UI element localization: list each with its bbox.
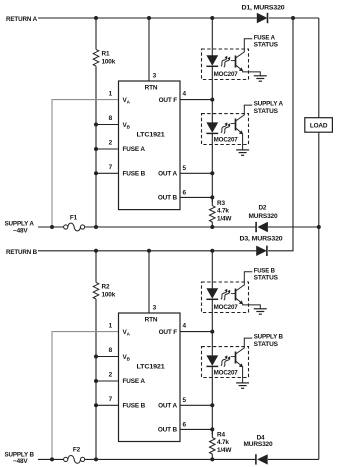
- junction R2 column at FUSE A: [94, 379, 98, 383]
- label U1 RTN: [145, 84, 158, 91]
- wire SUPPLY B rail mid: [85, 458, 256, 460]
- wire load line bottom: [268, 132, 319, 459]
- junction supply A after fuse: [94, 225, 98, 229]
- resistor R4 4.7k: [210, 429, 216, 459]
- label U4 LTC1921: [137, 364, 166, 371]
- ground U3: [236, 150, 249, 155]
- light arrows U6: [221, 355, 230, 366]
- svg-text:OUT B: OUT B: [158, 427, 178, 434]
- wire FUSE A pin stub: [96, 148, 119, 150]
- svg-text:FUSE B: FUSE B: [123, 403, 146, 410]
- svg-text:1/4W: 1/4W: [217, 216, 232, 223]
- svg-text:MURS320: MURS320: [244, 441, 274, 448]
- label R2: [102, 283, 116, 298]
- junction supply B after fuse: [94, 457, 98, 461]
- svg-text:5: 5: [183, 397, 187, 404]
- wire RTN stub B: [148, 251, 150, 313]
- junction R2 column at FUSE B: [94, 403, 98, 407]
- transistor U2 output: [231, 39, 260, 76]
- svg-text:FUSE A: FUSE A: [123, 146, 146, 153]
- svg-text:OUT F: OUT F: [159, 329, 178, 336]
- wire VA sense gray B: [52, 332, 119, 460]
- svg-text:FUSE B: FUSE B: [123, 171, 146, 178]
- svg-text:LTC1921: LTC1921: [137, 132, 166, 139]
- label U3 MOC207: [214, 136, 239, 143]
- wire opto column lower B: [211, 366, 213, 434]
- wire FUSE A pin stub B: [96, 380, 119, 382]
- ground U6: [236, 383, 249, 388]
- junction top rail at RTN: [147, 16, 151, 20]
- pin 6 label U4: [183, 421, 187, 428]
- svg-text:MOC207: MOC207: [214, 369, 239, 376]
- svg-text:STATUS: STATUS: [254, 275, 279, 282]
- wire opto column lower: [211, 133, 213, 202]
- junction OUT B node B: [210, 427, 214, 431]
- label U4 OUT B: [158, 427, 178, 434]
- svg-text:SUPPLY A: SUPPLY A: [254, 101, 284, 108]
- wire OUT A stub: [180, 172, 212, 174]
- load box: [305, 118, 333, 133]
- pin 5 label U1: [183, 165, 187, 172]
- transistor U3 output: [231, 105, 252, 150]
- svg-text:OUT A: OUT A: [158, 403, 177, 410]
- node RETURN A label: [6, 16, 38, 23]
- wire SUPPLY A rail mid: [85, 226, 256, 228]
- pin 3 label U4: [153, 304, 157, 311]
- label LOAD: [310, 123, 328, 130]
- junction supply B at VA sense: [50, 457, 54, 461]
- svg-text:5: 5: [183, 165, 187, 172]
- label U6 MOC207: [214, 369, 239, 376]
- junction R1 column at FUSE A: [94, 147, 98, 151]
- label U5 MOC207: [214, 304, 239, 311]
- transistor U5 output: [231, 272, 260, 309]
- wire opto column top B: [211, 251, 213, 289]
- wire SUPPLY B rail left: [38, 458, 64, 460]
- svg-text:R3: R3: [217, 200, 225, 207]
- resistor R1 100k: [93, 18, 99, 227]
- label U1 OUT F: [159, 97, 178, 104]
- label SUPPLY A: [5, 221, 35, 235]
- label FUSE B STATUS: [254, 267, 279, 281]
- LED U3: [206, 122, 218, 133]
- junction top rail at R1: [94, 16, 98, 20]
- junction top rail after D1: [291, 16, 295, 20]
- label SUPPLY B STATUS: [254, 334, 284, 348]
- svg-text:F1: F1: [70, 215, 78, 222]
- svg-text:2: 2: [109, 372, 113, 379]
- wire SUPPLY A rail left: [38, 226, 64, 228]
- diode D2 MURS320: [256, 222, 268, 232]
- fuse F2: [64, 456, 85, 464]
- svg-text:VA: VA: [123, 97, 131, 104]
- label R3: [217, 200, 232, 223]
- svg-text:MOC207: MOC207: [214, 71, 239, 78]
- svg-text:RTN: RTN: [145, 316, 158, 323]
- wire FUSE B pin stub: [96, 172, 119, 174]
- label U1 FUSE B: [123, 171, 146, 178]
- svg-text:VB: VB: [123, 354, 131, 361]
- pin 2 label U1: [109, 140, 113, 147]
- pin 5 label U4: [183, 397, 187, 404]
- wire opto column mid: [211, 66, 213, 122]
- junction supply B at R4: [210, 457, 214, 461]
- light arrows U2: [221, 56, 230, 67]
- pin 1 label U4: [109, 322, 113, 329]
- label U1 OUT A: [158, 171, 177, 178]
- svg-text:4.7k: 4.7k: [217, 439, 229, 446]
- LED U2: [206, 55, 218, 66]
- label U4 FUSE A: [123, 378, 146, 385]
- svg-text:4.7k: 4.7k: [217, 208, 229, 215]
- svg-text:−48V: −48V: [13, 227, 28, 234]
- svg-text:D3, MURS320: D3, MURS320: [240, 236, 284, 243]
- svg-text:R4: R4: [217, 432, 225, 439]
- svg-text:4: 4: [183, 322, 187, 329]
- wire opto column top: [211, 18, 213, 56]
- junction return B at RTN: [147, 249, 151, 253]
- svg-text:FUSE A: FUSE A: [123, 378, 146, 385]
- wire SUPPLY A rail right: [268, 226, 319, 228]
- svg-text:VA: VA: [123, 329, 131, 336]
- svg-text:STATUS: STATUS: [254, 341, 279, 348]
- wire RETURN A rail: [38, 17, 319, 19]
- svg-text:OUT A: OUT A: [158, 171, 177, 178]
- pin 3 label U1: [153, 72, 157, 79]
- svg-text:R2: R2: [102, 283, 110, 290]
- wire OUT F stub: [180, 99, 212, 101]
- svg-text:100k: 100k: [102, 58, 116, 65]
- diode D1 MURS320: [257, 13, 268, 23]
- label U4 FUSE B: [123, 403, 146, 410]
- svg-text:D1, MURS320: D1, MURS320: [242, 4, 286, 11]
- svg-text:FUSE B: FUSE B: [254, 267, 276, 274]
- svg-text:RETURN A: RETURN A: [6, 16, 38, 23]
- fuse F1: [64, 223, 85, 231]
- wire RETURN B rail: [38, 250, 256, 252]
- label U1 VA: [123, 97, 131, 104]
- pin 7 label U4: [109, 396, 113, 403]
- wire RTN stub: [148, 18, 150, 81]
- label U4 RTN: [145, 316, 158, 323]
- wire VB pin stub B: [96, 356, 119, 358]
- label U4 VA: [123, 329, 131, 336]
- op IC U4 LTC1921 box: [119, 313, 181, 442]
- wire return OR node vertical: [268, 18, 293, 251]
- svg-text:RTN: RTN: [145, 84, 158, 91]
- wire FUSE B pin stub B: [96, 404, 119, 406]
- resistor R3 4.7k: [210, 197, 216, 227]
- svg-text:3: 3: [153, 72, 157, 79]
- label D4: [244, 434, 274, 448]
- svg-text:1: 1: [109, 90, 113, 97]
- label D1: [242, 4, 286, 11]
- diode D3 MURS320: [256, 246, 267, 256]
- junction return B at opto column: [210, 249, 214, 253]
- svg-text:−48V: −48V: [13, 458, 28, 465]
- ground U5: [254, 309, 267, 314]
- label U4 OUT F: [159, 329, 178, 336]
- svg-text:LTC1921: LTC1921: [137, 364, 166, 371]
- junction top rail at opto column: [210, 16, 214, 20]
- svg-text:LOAD: LOAD: [310, 123, 328, 130]
- wire OUT B stub: [180, 196, 212, 198]
- label U4 VB: [123, 354, 131, 361]
- svg-text:6: 6: [183, 421, 187, 428]
- junction OUT F node: [210, 98, 214, 102]
- label U1 OUT B: [158, 195, 178, 202]
- label D2: [249, 205, 279, 221]
- junction R1 column at VB: [94, 123, 98, 127]
- junction return B at R2: [94, 249, 98, 253]
- pin 6 label U1: [183, 189, 187, 196]
- svg-text:MOC207: MOC207: [214, 136, 239, 143]
- svg-text:FUSE A: FUSE A: [254, 34, 276, 41]
- junction OUT B node: [210, 195, 214, 199]
- label R1: [102, 50, 116, 65]
- label FUSE A STATUS: [254, 34, 279, 48]
- LED U5: [206, 288, 218, 299]
- light arrows U5: [221, 289, 230, 300]
- resistor R2 100k: [93, 251, 99, 460]
- label U1 FUSE A: [123, 146, 146, 153]
- node RETURN B label: [6, 249, 38, 256]
- light arrows U3: [221, 122, 230, 133]
- optocoupler U3 MOC207 box: [202, 114, 249, 145]
- svg-text:STATUS: STATUS: [254, 108, 279, 115]
- optocoupler U5 MOC207 box: [202, 282, 249, 313]
- svg-text:D2: D2: [258, 205, 266, 212]
- label U2 MOC207: [214, 71, 239, 78]
- svg-text:VB: VB: [123, 122, 131, 129]
- wire OUT A stub B: [180, 404, 212, 406]
- svg-text:100k: 100k: [102, 291, 116, 298]
- label U1 VB: [123, 122, 131, 129]
- pin 1 label U1: [109, 90, 113, 97]
- label D3: [240, 236, 284, 243]
- svg-text:RETURN B: RETURN B: [6, 249, 38, 256]
- op IC U1 LTC1921 box: [119, 81, 181, 210]
- svg-text:4: 4: [183, 90, 187, 97]
- svg-text:SUPPLY B: SUPPLY B: [254, 334, 284, 341]
- label R4: [217, 432, 232, 454]
- wire OUT B stub B: [180, 428, 212, 430]
- svg-text:OUT F: OUT F: [159, 97, 178, 104]
- label F1: [70, 215, 78, 222]
- junction supply A at R3: [210, 225, 214, 229]
- svg-text:6: 6: [183, 189, 187, 196]
- svg-text:OUT B: OUT B: [158, 195, 178, 202]
- optocoupler U6 MOC207 box: [202, 347, 249, 378]
- wire opto column mid B: [211, 299, 213, 355]
- svg-text:F2: F2: [73, 447, 81, 454]
- svg-text:R1: R1: [102, 50, 110, 57]
- junction R2 column at VB: [94, 355, 98, 359]
- LED U6: [206, 355, 218, 366]
- optocoupler U2 MOC207 box: [202, 49, 249, 80]
- wire load line top: [318, 18, 320, 118]
- pin 4 label U1: [183, 90, 187, 97]
- pin 8 label U4: [109, 347, 113, 354]
- label F2: [73, 447, 81, 454]
- junction supply A at VA sense: [50, 225, 54, 229]
- junction OUT F node B: [210, 330, 214, 334]
- pin 7 label U1: [109, 164, 113, 171]
- svg-text:3: 3: [153, 304, 157, 311]
- svg-text:MOC207: MOC207: [214, 304, 239, 311]
- svg-text:MURS320: MURS320: [249, 213, 279, 220]
- label SUPPLY B: [5, 451, 35, 465]
- label U1 LTC1921: [137, 132, 166, 139]
- svg-text:1/4W: 1/4W: [217, 447, 232, 454]
- svg-text:STATUS: STATUS: [254, 42, 279, 49]
- wire VB pin stub: [96, 124, 119, 126]
- transistor U6 output: [231, 338, 252, 383]
- junction OUT A node: [210, 171, 214, 175]
- svg-text:7: 7: [109, 164, 113, 171]
- junction R1 column at FUSE B: [94, 171, 98, 175]
- svg-text:7: 7: [109, 396, 113, 403]
- svg-text:1: 1: [109, 322, 113, 329]
- ground U2: [254, 76, 267, 81]
- pin 8 label U1: [109, 115, 113, 122]
- junction OUT A node B: [210, 403, 214, 407]
- svg-text:8: 8: [109, 115, 113, 122]
- label SUPPLY A STATUS: [254, 101, 284, 115]
- pin 2 label U4: [109, 372, 113, 379]
- svg-text:8: 8: [109, 347, 113, 354]
- svg-text:2: 2: [109, 140, 113, 147]
- wire OUT F stub B: [180, 331, 212, 333]
- pin 4 label U4: [183, 322, 187, 329]
- diode D4 MURS320: [256, 454, 268, 464]
- label U4 OUT A: [158, 403, 177, 410]
- wire VA sense gray: [52, 100, 119, 227]
- junction supply A at load line: [317, 225, 321, 229]
